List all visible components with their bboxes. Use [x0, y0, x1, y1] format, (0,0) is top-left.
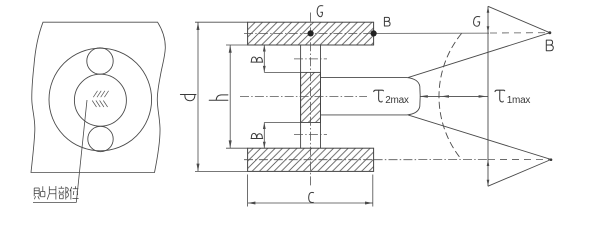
svg-text:2max: 2max [385, 95, 409, 106]
svg-text:1max: 1max [507, 95, 531, 106]
